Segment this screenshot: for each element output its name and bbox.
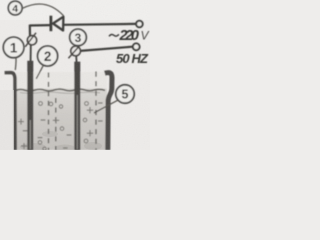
gas bubbles [38, 102, 88, 151]
binding-post terminal 1 (circle with slash) [27, 36, 36, 45]
plus ion mark [21, 143, 27, 149]
ion marks: plus signs [18, 107, 93, 149]
binding-post terminal 2 (circle with slash) [71, 46, 81, 56]
minus ion mark [41, 119, 46, 121]
right electrode light core [76, 95, 78, 149]
left electrode plate [27, 61, 33, 150]
wire: top horizontal from L-corner to diode cathode [30, 24, 50, 27]
diode V1: triangle (pointing left) [53, 17, 63, 31]
bubble [39, 102, 43, 106]
plus ion mark [53, 117, 59, 124]
bubble [43, 147, 46, 150]
bubble [59, 105, 62, 108]
diode V1: cathode bar [50, 16, 53, 32]
callout circle 3 [70, 29, 87, 46]
leader from circle 1 to vessel left wall [14, 58, 17, 70]
bottom liquid smudges [20, 131, 102, 152]
minus ion mark [38, 137, 43, 139]
film grain overlay [0, 0, 150, 150]
callout circle 1 [3, 37, 24, 58]
ion marks: minus signs [23, 103, 103, 148]
plus ion mark [87, 107, 93, 113]
dashed hidden plate line B (centre) [55, 98, 57, 150]
wire: vertical drop from top-left corner [29, 25, 31, 36]
water surface wavy line [16, 89, 105, 91]
minus ion mark [67, 134, 72, 136]
leader from circle 2 to left electrode [36, 65, 43, 79]
callout circle 4 [8, 1, 22, 15]
minus ion mark [98, 102, 103, 104]
liquid (electrolyte) fill [16, 89, 107, 151]
vessel air space tint [16, 72, 107, 90]
mains terminal circle, lower wire [133, 43, 140, 50]
plus ion mark [87, 130, 93, 136]
paper background [0, 0, 150, 150]
minus ion mark [63, 147, 68, 149]
bubble [60, 127, 64, 131]
right electrode plate [74, 62, 80, 150]
bubble [83, 118, 87, 122]
faint paper shading bottom-left [0, 90, 14, 150]
bubble [84, 139, 88, 143]
wire: lower horizontal from terminal 2 to right terminal [80, 47, 132, 51]
bubble [49, 102, 53, 106]
leader from circle 4 to diode [23, 4, 64, 16]
water surface echo line [20, 92, 100, 93]
minus ion mark [23, 130, 28, 132]
callout circle 5 [116, 85, 134, 103]
dashed hidden plate line C (right of right electrode) [95, 72, 97, 151]
plus ion mark [18, 119, 24, 125]
wire: terminal 2 down to right electrode [75, 56, 77, 63]
callout circle 2 [38, 46, 58, 66]
minus ion mark [98, 120, 103, 122]
terminal 1 slash [25, 33, 36, 47]
mains terminal circle, upper wire [136, 21, 143, 28]
terminal 2 slash [68, 45, 80, 59]
left electrode light core [29, 120, 31, 149]
vessel left wall with rim (item 1) [5, 73, 16, 150]
bubble [38, 141, 42, 145]
dashed hidden plate line A (left of centre) [48, 73, 50, 151]
label tilde of ~220V [109, 34, 119, 36]
leader from circle 5 into electrolyte [94, 100, 118, 113]
wire: top horizontal from diode to right terminal [64, 23, 136, 26]
wire: terminal 1 down to left electrode [30, 45, 32, 61]
bubble [85, 102, 89, 106]
vessel right wall with rim [105, 73, 112, 150]
